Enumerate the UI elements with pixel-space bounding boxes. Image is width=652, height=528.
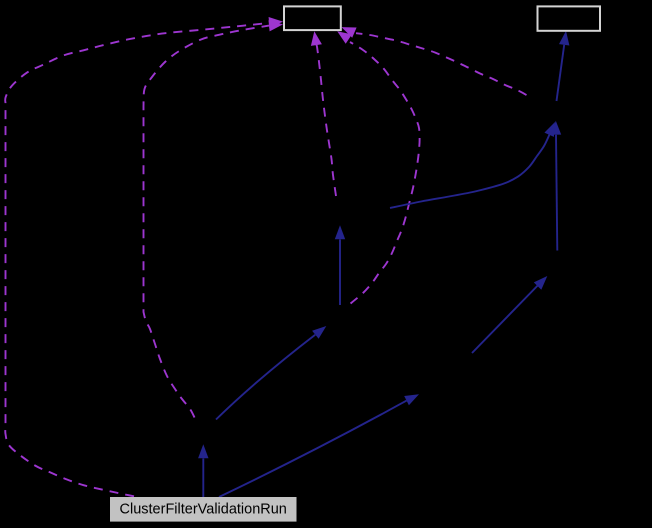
wire: solid inheritance edge node7->node4 (diagonal) [216, 326, 326, 420]
wire: dashed usage edge node5->box1 (shallow) [342, 27, 527, 95]
wire: dashed usage edge node4->box1 (right arc) [337, 31, 419, 303]
svg-text:ClusterFilterValidationRun: ClusterFilterValidationRun [120, 502, 287, 518]
node: main class ClusterFilterValidationRun (grey box with label) [110, 497, 297, 522]
node: empty class box 1 (top centre) [284, 6, 341, 30]
wire: solid inheritance edge main->node7 (vertical) [198, 444, 208, 497]
wire: dashed usage edge node7->box1 (inner loop) [144, 20, 284, 417]
wire: dashed usage edge node3->box1 (bottom) [311, 31, 336, 196]
wire: solid inheritance edge node6->node5 (vertical) [551, 121, 561, 251]
node: empty class box 2 (top right) [538, 6, 601, 30]
wire: solid inheritance edge node8->node6 (diagonal) [472, 276, 547, 353]
wire: solid inheritance edge node3->node5 (curved) [390, 122, 555, 208]
wire: solid inheritance edge main->node8 (long diagonal) [219, 394, 419, 497]
wire: solid inheritance edge node4->node3 (vertical) [335, 225, 345, 305]
wire: dashed usage edge main->box1 (left outer loop) [5, 17, 283, 496]
wire: solid inheritance edge node5->box2 (vertical) [557, 31, 570, 101]
